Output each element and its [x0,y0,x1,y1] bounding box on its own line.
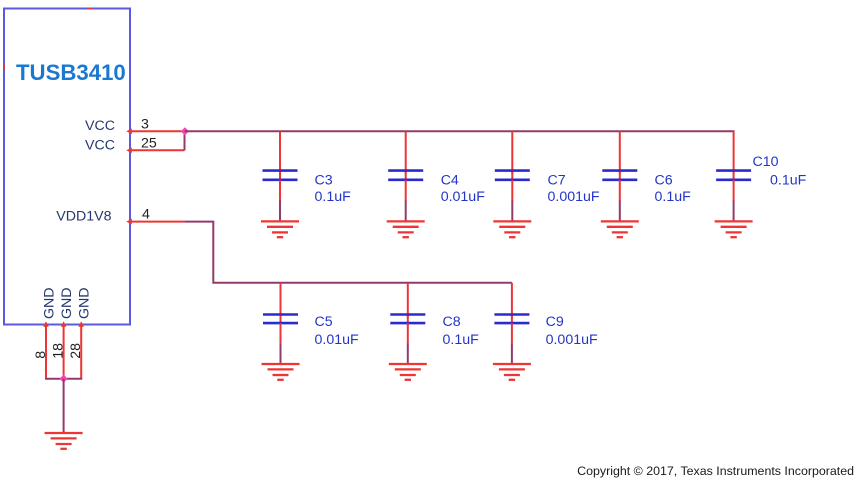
svg-text:C3: C3 [315,172,333,188]
svg-text:4: 4 [142,207,150,223]
IC U1 TUSB3410 body [4,9,130,325]
wire C3 to ground [279,201,281,222]
svg-text:VCC: VCC [85,138,115,154]
wire pin25 to VCC node [184,131,186,150]
svg-text:TUSB3410: TUSB3410 [16,60,126,85]
pin GND 8 [33,287,58,378]
capacitor C8 [390,283,425,364]
ground below C4 [387,221,425,237]
capacitor C10 [716,131,751,221]
svg-text:Copyright © 2017, Texas Instru: Copyright © 2017, Texas Instruments Inco… [577,464,854,478]
ground below C5 [262,364,300,380]
tick left border [3,65,5,70]
svg-text:0.001uF: 0.001uF [548,189,600,205]
ground below C9 [493,364,531,380]
capacitor C3 [263,131,298,221]
wire C4 to ground [405,201,407,222]
svg-text:GND: GND [59,287,75,319]
pin GND 28 [68,287,93,378]
label C3 value 0.1uF [315,172,352,205]
label C8 value 0.1uF [443,314,480,348]
svg-text:VCC: VCC [85,118,115,134]
ground below C3 [261,221,299,237]
label C10 value 0.1uF [753,154,807,189]
label C9 value 0.001uF [546,314,598,348]
wire C9 to ground [511,344,513,364]
svg-text:VDD1V8: VDD1V8 [56,208,111,224]
wire C10 to ground [733,201,735,222]
tick top border [88,8,93,10]
wire VCC rail [185,130,735,132]
ground below IC [45,433,83,449]
pin VDD1V8 4 [56,207,184,225]
svg-text:C8: C8 [443,314,461,330]
wire GND bus bar [45,378,82,380]
wire C5 to ground [280,344,282,364]
svg-text:0.001uF: 0.001uF [546,332,598,348]
svg-text:C10: C10 [753,154,779,170]
svg-text:C5: C5 [315,314,333,330]
wire VDD1V8 net [184,222,512,283]
svg-text:GND: GND [42,287,58,319]
ground below C7 [493,221,531,237]
ground below C10 [715,221,753,237]
pin VCC 3 [85,116,185,134]
svg-text:C4: C4 [441,172,459,188]
svg-text:25: 25 [141,135,157,151]
label C6 value 0.1uF [655,172,692,205]
svg-text:0.1uF: 0.1uF [443,332,480,348]
label C7 value 0.001uF [548,172,600,205]
capacitor C7 [495,131,530,221]
svg-text:GND: GND [77,287,93,319]
wire C8 to ground [407,344,409,364]
node VCC junction [181,127,189,135]
pin GND 18 [51,287,76,378]
svg-text:3: 3 [141,116,149,132]
ground below C8 [389,364,427,380]
label C5 value 0.01uF [315,314,360,348]
wire GND to ground [63,379,65,433]
svg-text:0.01uF: 0.01uF [441,189,486,205]
capacitor C5 [263,283,298,364]
node GND junction [59,375,67,383]
svg-text:C7: C7 [548,172,566,188]
wire C7 to ground [511,201,513,222]
svg-text:0.1uF: 0.1uF [315,189,352,205]
svg-text:0.01uF: 0.01uF [315,332,360,348]
capacitor C4 [388,131,423,221]
svg-text:0.1uF: 0.1uF [655,189,692,205]
svg-text:C6: C6 [655,172,673,188]
svg-text:C9: C9 [546,314,564,330]
ground below C6 [601,221,639,237]
capacitor C9 [494,283,529,364]
svg-text:0.1uF: 0.1uF [770,173,807,189]
pin VCC 25 [85,135,184,153]
capacitor C6 [602,131,637,221]
label C4 value 0.01uF [441,172,486,205]
wire C6 to ground [619,201,621,222]
